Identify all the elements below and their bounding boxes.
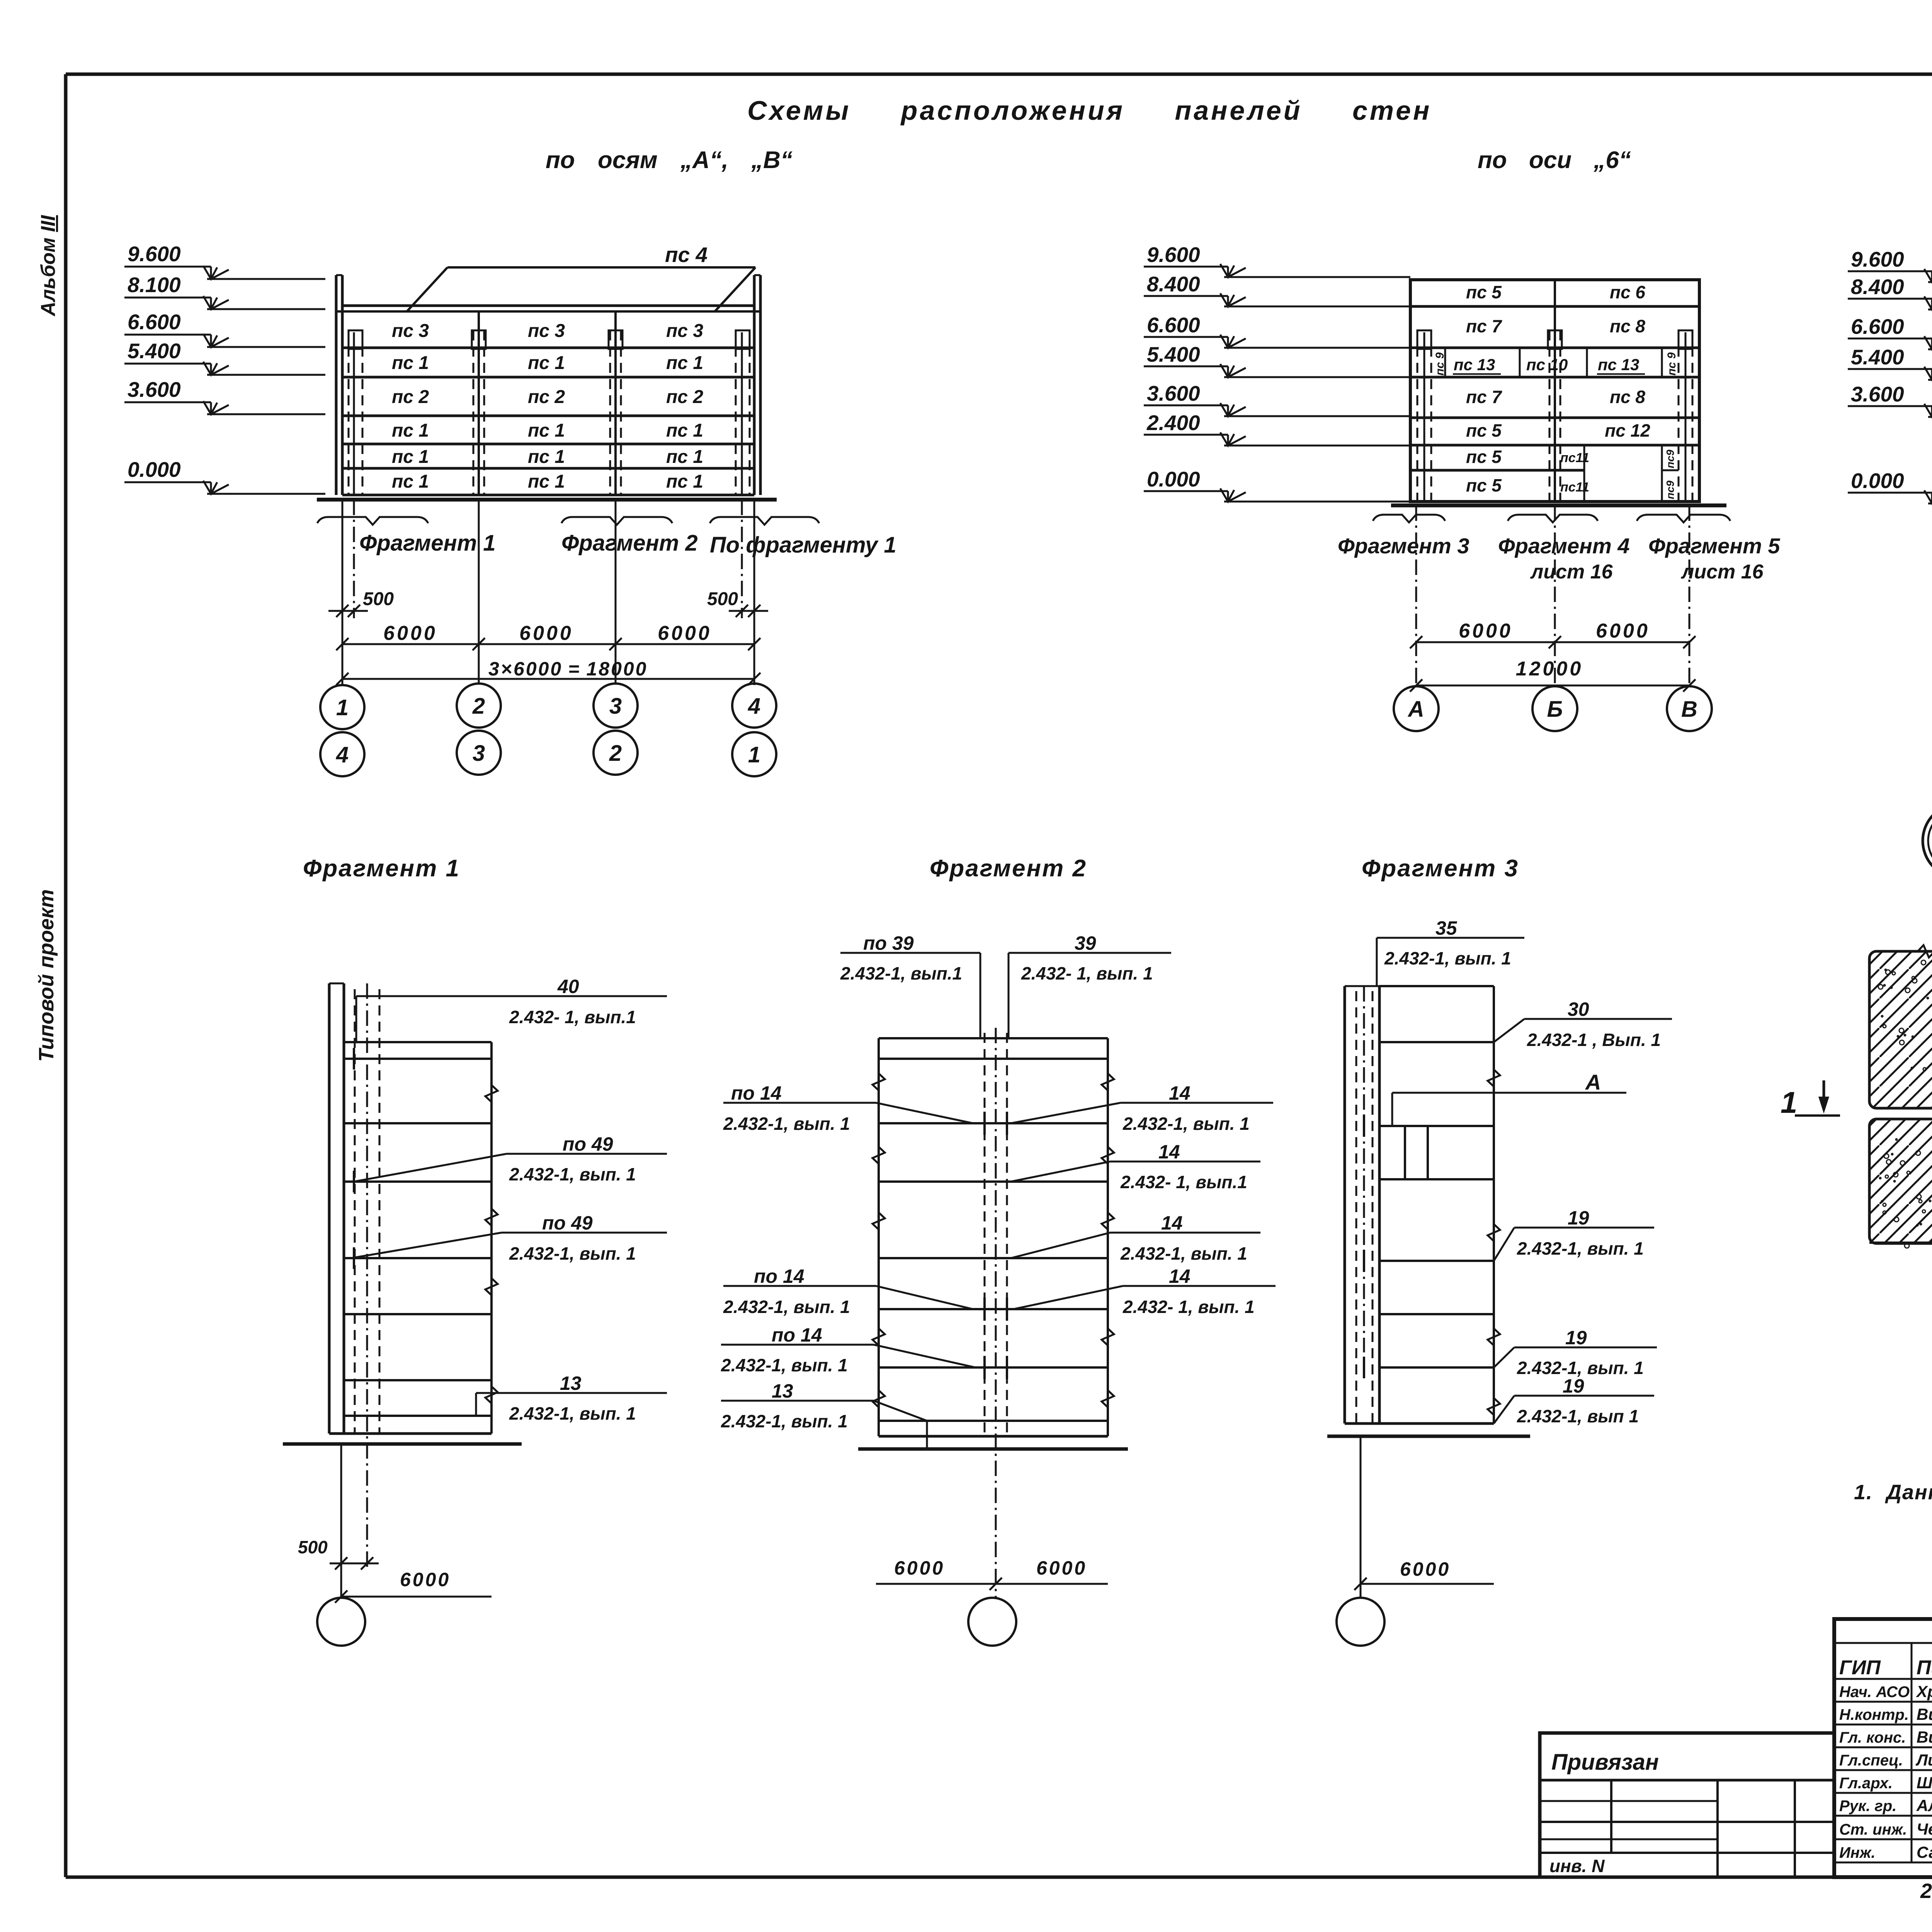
left callout по 14 r1 (723, 1102, 876, 1104)
svg-text:39: 39 (1075, 932, 1096, 954)
hidden fachwerk column (354, 989, 356, 1434)
svg-text:лист 16: лист 16 (1530, 561, 1613, 583)
svg-text:пс 2: пс 2 (392, 387, 429, 407)
svg-text:500: 500 (363, 589, 394, 609)
elevation mark 5.400 (1848, 345, 1932, 380)
svg-text:Шаломеев: Шаломеев (1917, 1774, 1932, 1792)
dimension line 6000x3 (342, 643, 754, 645)
svg-text:лист 16: лист 16 (1680, 561, 1764, 583)
svg-text:пс 10: пс 10 (1526, 355, 1568, 374)
svg-text:6000: 6000 (1596, 620, 1650, 642)
svg-text:пс 1: пс 1 (392, 420, 429, 441)
ground line (1391, 503, 1726, 507)
bottom and ground (1345, 1422, 1494, 1425)
svg-text:Фрагмент 1: Фрагмент 1 (303, 855, 460, 882)
signature rows (1834, 1642, 1932, 1644)
elevation mark 2.400 (1144, 411, 1410, 446)
svg-text:Пивторак: Пивторак (1917, 1656, 1932, 1679)
hidden column (1355, 991, 1357, 1423)
svg-text:Хрупало: Хрупало (1916, 1682, 1932, 1701)
svg-text:Ст. инж.: Ст. инж. (1839, 1821, 1907, 1838)
svg-text:пс 1: пс 1 (666, 353, 703, 373)
svg-text:2.432-1, вып. 1: 2.432-1, вып. 1 (1517, 1238, 1644, 1259)
svg-text:Привязан: Привязан (1551, 1750, 1659, 1775)
svg-text:по 14: по 14 (754, 1265, 804, 1287)
svg-text:ГИП: ГИП (1839, 1656, 1881, 1679)
svg-text:2.432- 1, вып.1: 2.432- 1, вып.1 (509, 1007, 636, 1027)
svg-text:0.000: 0.000 (1851, 469, 1904, 493)
svg-text:5.400: 5.400 (128, 339, 181, 363)
panel joint ticks (1363, 1115, 1365, 1137)
panel joint ticks (983, 1112, 986, 1135)
svg-text:по 49: по 49 (563, 1133, 613, 1155)
svg-text:14: 14 (1161, 1212, 1183, 1234)
panel row lines (344, 1041, 492, 1043)
svg-text:2.432-1, вып. 1: 2.432-1, вып. 1 (721, 1355, 848, 1375)
svg-text:Черкасова: Черкасова (1917, 1820, 1932, 1838)
svg-text:2.432-1, вып. 1: 2.432-1, вып. 1 (1120, 1243, 1247, 1264)
svg-text:19: 19 (1568, 1207, 1589, 1229)
elevation mark 3.600 (1848, 382, 1932, 417)
svg-text:пс 1: пс 1 (392, 471, 429, 492)
svg-text:пс 12: пс 12 (1605, 420, 1650, 440)
right callout 14 r3 (1110, 1232, 1260, 1234)
row lines (342, 347, 754, 349)
svg-text:35: 35 (1435, 917, 1458, 939)
svg-text:8.400: 8.400 (1147, 272, 1200, 296)
end fachwerk column left (353, 332, 355, 495)
svg-text:2.432-1, вып. 1: 2.432-1, вып. 1 (721, 1411, 848, 1431)
svg-text:2.432-1, вып. 1: 2.432-1, вып. 1 (1384, 948, 1511, 968)
svg-text:пс 1: пс 1 (666, 447, 703, 467)
svg-text:пс 13: пс 13 (1598, 355, 1639, 374)
right callout 14 r2 (1110, 1161, 1260, 1163)
callout по 49 lower (502, 1232, 667, 1234)
thin strip cell dividers (1444, 348, 1446, 377)
svg-text:500: 500 (707, 589, 738, 609)
svg-text:30: 30 (1568, 998, 1589, 1020)
svg-text:1: 1 (336, 695, 349, 720)
svg-text:пс 5: пс 5 (1466, 420, 1502, 440)
axis circle (317, 1598, 365, 1646)
svg-text:пс 4: пс 4 (665, 243, 707, 267)
svg-text:4: 4 (748, 694, 760, 719)
fragment braces (317, 517, 428, 525)
svg-text:пс 5: пс 5 (1466, 282, 1502, 302)
svg-text:13: 13 (560, 1372, 582, 1394)
svg-text:2.432-1, вып 1: 2.432-1, вып 1 (1517, 1406, 1639, 1426)
title block (1834, 1619, 1932, 1877)
svg-text:2: 2 (609, 741, 622, 766)
row lines (1410, 305, 1699, 308)
svg-text:пс 1: пс 1 (666, 471, 703, 492)
svg-text:пс 7: пс 7 (1466, 387, 1502, 407)
svg-text:2.432-1 , Вып. 1: 2.432-1 , Вып. 1 (1527, 1030, 1661, 1050)
left callout 13 (721, 1400, 874, 1402)
callout 30 (1524, 1018, 1672, 1020)
elevation mark 0.000 (124, 457, 325, 494)
panel row lines (879, 1037, 1108, 1039)
svg-text:Н.контр.: Н.контр. (1839, 1706, 1909, 1723)
svg-text:9.600: 9.600 (1851, 247, 1904, 271)
elevation mark 3.600 (124, 378, 325, 414)
right panel edge (1107, 1038, 1109, 1436)
svg-text:14: 14 (1158, 1141, 1180, 1163)
svg-text:Фрагмент 4: Фрагмент 4 (1498, 534, 1629, 558)
svg-text:пс 2: пс 2 (666, 387, 703, 407)
svg-text:Типовой проект: Типовой проект (35, 889, 58, 1062)
ground line (317, 498, 777, 502)
dimension 6000+6000 (1416, 641, 1689, 643)
svg-text:Б: Б (1547, 697, 1563, 722)
svg-text:пс 1: пс 1 (528, 471, 565, 492)
building bottom line (342, 494, 754, 497)
end fachwerk column right (741, 332, 743, 495)
bottom line with break (1869, 1242, 1932, 1244)
svg-text:2.432-1, вып. 1: 2.432-1, вып. 1 (509, 1243, 636, 1264)
dimension 500 left (328, 610, 368, 612)
intermediate fachwerk column axis 3 (614, 311, 617, 495)
axis circles А Б В (1394, 686, 1439, 731)
svg-text:Фрагмент 3: Фрагмент 3 (1338, 534, 1469, 558)
dimension line 3x6000=18000 (342, 678, 754, 680)
right elevation scheme по оси 1 (1848, 247, 1932, 731)
svg-text:Рук. гр.: Рук. гр. (1839, 1798, 1896, 1815)
svg-text:2.432- 1, вып. 1: 2.432- 1, вып. 1 (1021, 963, 1153, 983)
svg-text:пс 1: пс 1 (528, 353, 565, 373)
svg-text:14: 14 (1169, 1265, 1190, 1287)
middle elevation scheme по оси 6 (1144, 243, 1780, 731)
wall column (1344, 986, 1346, 1423)
svg-text:пс 9: пс 9 (1665, 352, 1678, 376)
svg-text:пс9: пс9 (1664, 480, 1676, 499)
elevation mark 0.000 (1848, 469, 1932, 503)
svg-text:3.600: 3.600 (128, 378, 181, 401)
svg-text:по 39: по 39 (863, 932, 914, 954)
elevation mark 6.600 (1848, 315, 1932, 349)
svg-text:2.432-1, вып. 1: 2.432-1, вып. 1 (509, 1403, 636, 1423)
svg-text:2.432-1, вып.1: 2.432-1, вып.1 (840, 963, 962, 983)
callout 39 (1009, 952, 1171, 954)
middle column Б (1554, 280, 1556, 502)
axis circles row 1: 1 2 3 4 (320, 685, 364, 729)
right callout 14 r1 (1121, 1102, 1273, 1104)
svg-text:пс 13: пс 13 (1454, 355, 1495, 374)
svg-text:2.432-1, вып. 1: 2.432-1, вып. 1 (723, 1114, 850, 1134)
dimension 500 right (729, 610, 768, 612)
привязан table (1540, 1733, 1834, 1877)
view mark А double circle (1923, 804, 1932, 878)
bottom and ground (879, 1435, 1108, 1438)
svg-text:Алехова: Алехова (1916, 1796, 1932, 1815)
svg-text:пс11: пс11 (1560, 480, 1589, 495)
svg-text:пс 9: пс 9 (1434, 352, 1446, 376)
svg-text:6.600: 6.600 (1147, 313, 1200, 337)
left elevation scheme по осям А,В (124, 242, 896, 776)
svg-text:Гл.спец.: Гл.спец. (1839, 1752, 1903, 1769)
elevation mark 6.600 (1144, 313, 1410, 348)
door jamb detail (1404, 1126, 1406, 1179)
svg-text:6.600: 6.600 (128, 310, 181, 334)
elevation mark 8.400 (1848, 275, 1932, 310)
svg-text:пс 3: пс 3 (528, 321, 565, 341)
svg-text:2.432-1, вып. 1: 2.432-1, вып. 1 (1122, 1114, 1250, 1134)
callout 13 (476, 1392, 667, 1394)
svg-text:Гл.арх.: Гл.арх. (1839, 1775, 1893, 1792)
svg-text:Фрагмент 5: Фрагмент 5 (1648, 534, 1780, 558)
svg-text:пс9: пс9 (1664, 449, 1676, 468)
svg-text:по 14: по 14 (731, 1082, 782, 1104)
panel edge right (1493, 986, 1495, 1423)
svg-text:1: 1 (1781, 1085, 1797, 1119)
witness line (1360, 1436, 1362, 1598)
elevation mark 8.100 (124, 273, 325, 309)
svg-text:0.000: 0.000 (1147, 467, 1200, 491)
svg-text:по 14: по 14 (772, 1324, 822, 1346)
Фрагмент 2 detail (721, 855, 1276, 1646)
svg-text:Лисичкин: Лисичкин (1915, 1751, 1932, 1769)
svg-text:8.400: 8.400 (1851, 275, 1904, 299)
svg-text:3×6000 = 18000: 3×6000 = 18000 (488, 658, 648, 680)
svg-text:по осям „А“, „В“: по осям „А“, „В“ (546, 147, 793, 173)
svg-text:2.432- 1, вып. 1: 2.432- 1, вып. 1 (1122, 1297, 1255, 1317)
svg-text:40: 40 (557, 976, 579, 997)
panel row lines (1379, 985, 1494, 987)
svg-text:Схемы расположения панелей: Схемы расположения панелей стен (747, 95, 1432, 126)
svg-text:Сафонова: Сафонова (1917, 1843, 1932, 1861)
callout по 39 (840, 952, 980, 954)
concrete panel lower with hatch (1869, 1119, 1932, 1243)
panel joint ticks (353, 1048, 355, 1070)
svg-text:Альбом III: Альбом III (37, 214, 60, 317)
svg-text:12000: 12000 (1516, 658, 1583, 680)
svg-text:Инж.: Инж. (1839, 1844, 1876, 1861)
left callout по 14 r2 (723, 1285, 876, 1287)
svg-text:пс 1: пс 1 (392, 353, 429, 373)
callout 19 r1 (1514, 1227, 1654, 1229)
witness line (340, 1444, 342, 1598)
break marks on panel edges (1918, 945, 1932, 957)
callout 35 (1377, 937, 1524, 939)
svg-text:6000: 6000 (894, 1557, 945, 1579)
svg-text:Нач. АСО: Нач. АСО (1839, 1684, 1910, 1701)
roof panel пс4 parallelogram (407, 267, 447, 311)
elevation mark 5.400 (1144, 342, 1410, 377)
svg-text:6000: 6000 (400, 1569, 451, 1590)
svg-text:1: 1 (748, 742, 760, 767)
callout 19 r2 (1514, 1347, 1657, 1349)
svg-text:500: 500 (298, 1537, 328, 1557)
axis circle (968, 1598, 1016, 1646)
svg-text:пс11: пс11 (1560, 451, 1589, 465)
callout 40 (356, 995, 667, 997)
Фрагмент 1 detail (283, 855, 667, 1646)
svg-text:А: А (1585, 1070, 1601, 1094)
elevation mark 9.600 (1848, 247, 1932, 282)
svg-text:пс 1: пс 1 (528, 420, 565, 441)
svg-text:А: А (1407, 697, 1424, 722)
svg-text:пс 8: пс 8 (1610, 387, 1645, 407)
svg-text:2.432-1, вып. 1: 2.432-1, вып. 1 (509, 1164, 636, 1184)
wall column (328, 983, 331, 1434)
svg-text:14: 14 (1169, 1082, 1190, 1104)
svg-text:8.100: 8.100 (128, 273, 181, 297)
svg-text:6000: 6000 (519, 622, 573, 645)
svg-text:Фрагмент 2: Фрагмент 2 (930, 855, 1087, 882)
svg-text:6.600: 6.600 (1851, 315, 1904, 338)
svg-text:9.600: 9.600 (128, 242, 181, 266)
building end post left (335, 275, 338, 495)
svg-text:Фрагмент 3: Фрагмент 3 (1362, 855, 1519, 882)
svg-text:пс 1: пс 1 (666, 420, 703, 441)
svg-text:6000: 6000 (658, 622, 712, 645)
svg-text:0.000: 0.000 (128, 457, 181, 481)
svg-text:3: 3 (609, 694, 622, 719)
hidden column center (984, 1033, 986, 1436)
callout А (1392, 1092, 1626, 1094)
vertical margin text: Типовой проект (35, 889, 58, 1062)
fragment braces (1373, 515, 1445, 522)
elevation mark 6.600 (124, 310, 325, 347)
svg-text:19: 19 (1565, 1327, 1587, 1349)
svg-text:пс 3: пс 3 (392, 321, 429, 341)
panel edge right (490, 1042, 493, 1434)
dimension 12000 (1416, 685, 1689, 687)
svg-text:4: 4 (336, 742, 349, 767)
elevation mark 9.600 (1144, 243, 1410, 277)
svg-text:пс 5: пс 5 (1466, 475, 1502, 495)
svg-text:2.400: 2.400 (1146, 411, 1200, 435)
witness lines below ground (342, 500, 344, 685)
left callout по 14 r3 (721, 1344, 874, 1346)
svg-text:пс 1: пс 1 (392, 447, 429, 467)
building outline (1410, 280, 1699, 502)
Фрагмент 3 detail (1327, 855, 1672, 1646)
intermediate fachwerk column axis 2 (478, 311, 480, 495)
bottom-right opening and пс9 labels (1661, 445, 1663, 502)
svg-text:6000: 6000 (1459, 620, 1513, 642)
svg-text:13: 13 (772, 1380, 793, 1402)
vertical margin text: Альбом III (37, 214, 60, 317)
svg-text:5.400: 5.400 (1147, 342, 1200, 366)
svg-text:Гл. конс.: Гл. конс. (1839, 1729, 1906, 1746)
svg-text:В: В (1681, 697, 1697, 722)
svg-text:6000: 6000 (1400, 1558, 1451, 1580)
elevation mark 8.400 (1144, 272, 1410, 306)
svg-text:пс 5: пс 5 (1466, 447, 1502, 467)
svg-text:Фрагмент 1: Фрагмент 1 (359, 531, 496, 556)
svg-text:2: 2 (472, 694, 485, 719)
elevation mark 0.000 (1144, 467, 1410, 502)
svg-text:3: 3 (473, 741, 485, 766)
svg-text:По фрагменту 1: По фрагменту 1 (710, 532, 896, 558)
building end post right (753, 275, 756, 495)
witness lines (1415, 505, 1417, 686)
svg-text:6000: 6000 (383, 622, 437, 645)
svg-text:2.432- 1, вып.1: 2.432- 1, вып.1 (1120, 1172, 1247, 1192)
axis circle (1337, 1598, 1384, 1646)
svg-text:9.600: 9.600 (1147, 243, 1200, 267)
elevation mark 3.600 (1144, 381, 1410, 416)
svg-text:по 49: по 49 (542, 1212, 593, 1234)
svg-text:Винклер: Винклер (1917, 1705, 1932, 1723)
right fachwerk post (1678, 330, 1680, 502)
svg-text:5.400: 5.400 (1851, 345, 1904, 369)
svg-text:пс 6: пс 6 (1610, 282, 1645, 302)
callout 19 r3 (1514, 1395, 1654, 1397)
callout по 49 upper (507, 1153, 667, 1155)
svg-text:пс 3: пс 3 (666, 321, 703, 341)
left panel edge (878, 1038, 880, 1436)
concrete panel upper with hatch (1869, 951, 1932, 1108)
svg-text:инв. N: инв. N (1549, 1856, 1605, 1876)
svg-text:21177·03 24: 21177·03 24 (1920, 1879, 1932, 1903)
elevation mark 9.600 (124, 242, 325, 279)
svg-text:2.432-1, вып. 1: 2.432-1, вып. 1 (723, 1297, 850, 1317)
svg-text:19: 19 (1563, 1375, 1584, 1397)
svg-text:3.600: 3.600 (1147, 381, 1200, 405)
axis circles row 2: 4 3 2 1 (320, 732, 364, 776)
svg-text:пс 8: пс 8 (1610, 316, 1645, 336)
right callout 14 r4 (1123, 1285, 1276, 1287)
пс11 cells (1583, 445, 1585, 502)
svg-text:3.600: 3.600 (1851, 382, 1904, 406)
svg-text:пс 2: пс 2 (528, 387, 565, 407)
svg-text:Винклер: Винклер (1917, 1728, 1932, 1746)
top chord lines (342, 304, 754, 307)
elevation mark 5.400 (124, 339, 325, 375)
bottom and ground (329, 1432, 492, 1435)
svg-text:1. Данный лист смотри с л: 1. Данный лист смотри с листом 17 (1854, 1481, 1932, 1504)
svg-text:пс 1: пс 1 (528, 447, 565, 467)
node detail plan: panel joint at fachwerk column (1781, 899, 1932, 1400)
svg-text:6000: 6000 (1036, 1557, 1087, 1579)
svg-text:по оси „6“: по оси „6“ (1478, 147, 1631, 173)
left fachwerk post (1417, 330, 1418, 502)
svg-text:Фрагмент 2: Фрагмент 2 (561, 531, 698, 556)
svg-text:пс 7: пс 7 (1466, 316, 1502, 336)
